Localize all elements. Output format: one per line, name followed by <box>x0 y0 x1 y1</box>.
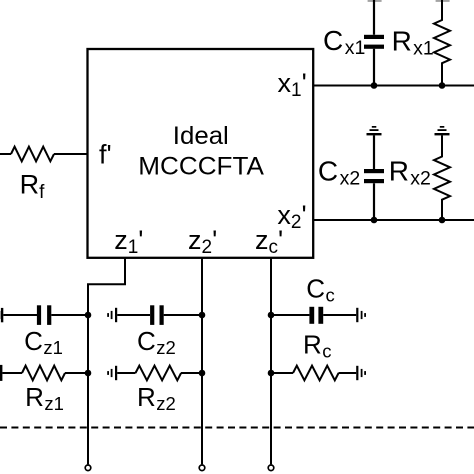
ground (cropped) above Cx1 <box>368 0 382 2</box>
wire Cz2 to z2 <box>164 314 202 316</box>
ground (cropped) left of Cz1 <box>0 308 3 322</box>
wire zc to Rc <box>271 372 293 374</box>
resistor Rx1 <box>434 0 450 86</box>
junction z1-Cz1 <box>85 312 92 319</box>
capacitor Cz2 <box>150 305 164 325</box>
capacitor Cx2 <box>364 135 384 220</box>
resistor Rf <box>11 147 54 162</box>
wire Rz2 to z2 <box>181 372 202 374</box>
ground above Cx2 <box>367 126 382 135</box>
wire ground to Rz1 <box>2 372 22 374</box>
wire zc to Cc <box>271 314 309 316</box>
junction z2-Cz2 <box>199 312 206 319</box>
junction x2-Rx2 <box>439 217 446 224</box>
terminal z2 <box>199 465 205 471</box>
junction x1-Cx1 <box>371 82 378 89</box>
main block U1 Ideal MCCCFTA <box>88 49 314 258</box>
wire Rc to ground <box>339 372 357 374</box>
resistor Rz1 <box>22 366 65 381</box>
capacitor Cc <box>309 307 323 324</box>
wire Cc to ground <box>323 314 356 316</box>
wire Rz1 to z1 <box>65 372 88 374</box>
wire Cz1 to z1 <box>51 314 88 316</box>
junction z2-Rz2 <box>199 370 206 377</box>
wire z1' stub with jog <box>88 258 125 465</box>
junction zc-Rc <box>268 370 275 377</box>
wire zc' stub <box>270 258 272 465</box>
terminal z1 <box>85 465 91 471</box>
ground right of Cc <box>356 308 366 322</box>
junction zc-Cc <box>268 312 275 319</box>
ground above Rx2 <box>435 126 450 135</box>
wire z2' stub <box>201 258 203 465</box>
wire ground to Cz2 <box>117 314 150 316</box>
junction x2-Cx2 <box>371 217 378 224</box>
ground left of Rz2 <box>107 366 117 380</box>
resistor Rz2 <box>136 366 182 381</box>
svg-text:f': f' <box>99 139 112 169</box>
wire Rf to pin f' <box>54 153 88 155</box>
capacitor Cz1 <box>37 305 51 325</box>
svg-text:Ideal: Ideal <box>173 122 229 150</box>
ground (cropped) above Rx1 <box>436 0 450 2</box>
wire input to Rf <box>0 153 11 155</box>
ground left of Cz2 <box>107 308 117 322</box>
ground (cropped) left of Rz1 <box>0 365 2 381</box>
wire x1' rail <box>313 85 474 87</box>
capacitor Cx1 <box>364 0 384 86</box>
terminal zc <box>268 465 274 471</box>
wire ground to Rz2 <box>117 372 135 374</box>
junction z1-Rz1 <box>85 370 92 377</box>
wire ground to Cz1 <box>3 314 37 316</box>
svg-text:MCCCFTA: MCCCFTA <box>138 152 264 180</box>
resistor Rc <box>293 366 339 381</box>
ground right of Rc <box>356 366 366 380</box>
resistor Rx2 <box>434 135 450 220</box>
junction x1-Rx1 <box>439 82 446 89</box>
dashed separator line <box>0 427 474 429</box>
wire x2' rail <box>313 219 474 221</box>
